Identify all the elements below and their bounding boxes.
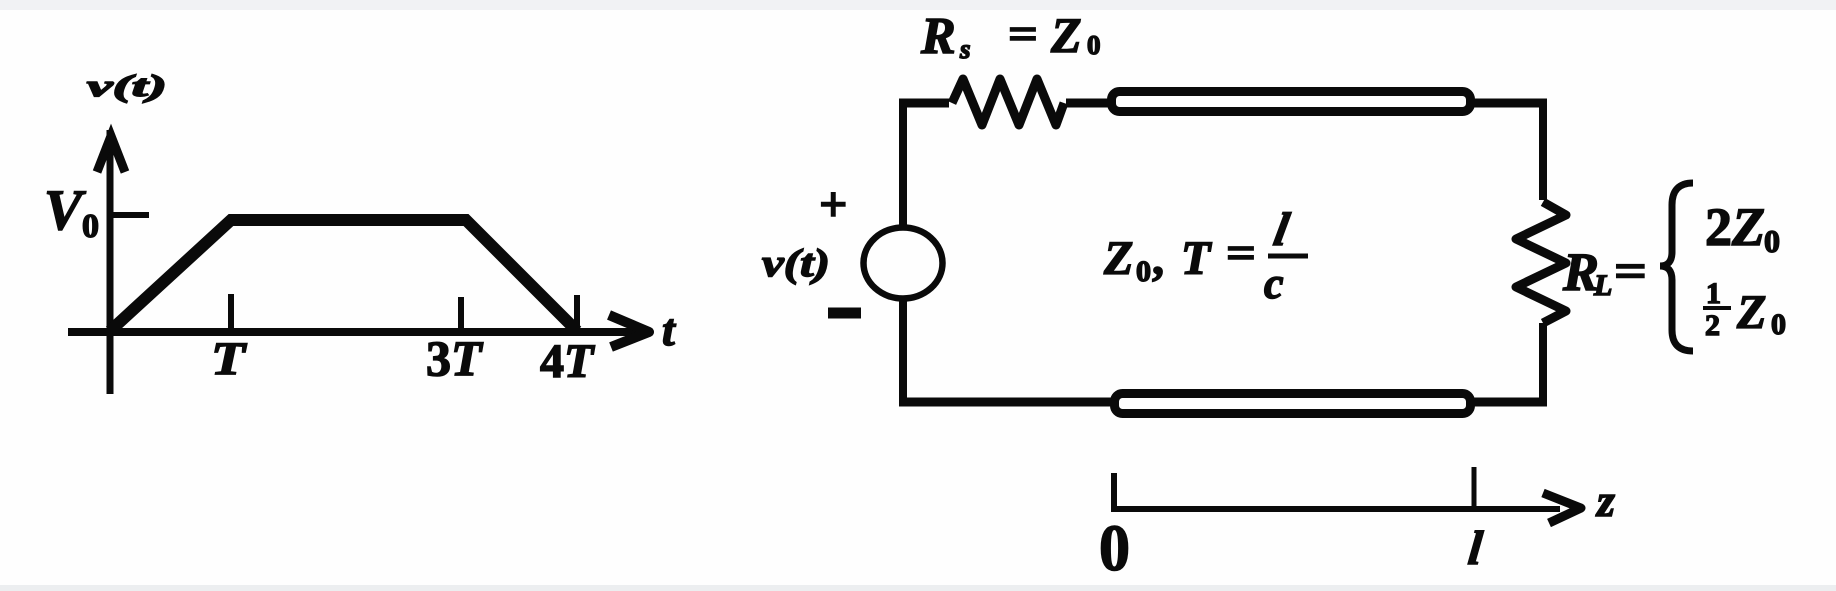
wire: right vertical upper: [1539, 99, 1547, 200]
x-axis arrowhead: [609, 315, 649, 347]
z-axis arrowhead: [1543, 493, 1581, 523]
V0 tick on y-axis: [110, 212, 149, 218]
svg-text:v(t): v(t): [87, 68, 167, 103]
svg-text:,: ,: [1152, 232, 1164, 285]
tick T: [228, 294, 234, 331]
svg-text:0: 0: [1136, 255, 1151, 288]
svg-text:0: 0: [82, 208, 99, 245]
svg-text:Z: Z: [1736, 286, 1766, 339]
svg-text:T: T: [1181, 232, 1212, 285]
svg-text:0: 0: [1099, 512, 1130, 585]
wire: right vertical lower: [1539, 323, 1547, 406]
svg-text:+: +: [819, 176, 848, 232]
source - polarity: [828, 308, 861, 319]
trapezoid pulse waveform: [110, 220, 577, 331]
svg-text:l: l: [1270, 204, 1294, 256]
svg-text:L: L: [1593, 269, 1612, 302]
y-axis: [107, 130, 114, 394]
wire: top left vertical from source to top rail: [899, 103, 907, 226]
svg-text:=: =: [1614, 245, 1647, 298]
scan band top: [0, 0, 1836, 10]
x-axis (t axis): [68, 328, 640, 336]
svg-text:0: 0: [1087, 30, 1101, 60]
svg-text:s: s: [959, 34, 971, 64]
svg-text:c: c: [1264, 259, 1284, 308]
z-axis left end tick: [1111, 473, 1117, 509]
svg-text:2: 2: [1705, 197, 1732, 257]
resistor RL zigzag: [1516, 202, 1566, 323]
z-axis line: [1111, 506, 1560, 512]
svg-text:z: z: [1595, 475, 1615, 526]
svg-text:R: R: [920, 8, 956, 65]
svg-text:=: =: [1226, 227, 1256, 278]
wire: bottom conductor to bottom right corner: [1472, 398, 1547, 407]
svg-text:V: V: [44, 179, 86, 242]
svg-text:Z: Z: [1050, 7, 1082, 63]
svg-text:t: t: [662, 304, 676, 355]
svg-text:2: 2: [1705, 309, 1720, 342]
tick 4T: [574, 295, 580, 331]
svg-text:0: 0: [1764, 223, 1780, 259]
source v(t) circle: [864, 228, 943, 299]
wire: top conductor to top right corner: [1472, 99, 1547, 108]
resistor Rs zigzag: [952, 79, 1064, 125]
svg-text:Z: Z: [1103, 232, 1133, 285]
svg-text:=: =: [1008, 8, 1038, 59]
svg-text:v(t): v(t): [762, 242, 830, 285]
transmission line bottom conductor tube: [1115, 394, 1471, 414]
wire: resistor to top conductor: [1066, 99, 1112, 108]
curly brace: [1660, 183, 1693, 351]
wire: top rail left segment: [899, 99, 949, 108]
scan band bottom: [0, 585, 1836, 591]
transmission line top conductor tube: [1112, 92, 1471, 112]
tick 3T: [458, 297, 464, 331]
wire: source bottom to bottom rail: [899, 300, 907, 402]
svg-text:0: 0: [1771, 308, 1786, 341]
y-axis arrowhead: [97, 136, 125, 172]
svg-text:l: l: [1466, 522, 1486, 575]
svg-text:1: 1: [1706, 277, 1721, 310]
wire: bottom rail left segment: [899, 398, 1112, 407]
svg-text:4T: 4T: [540, 335, 595, 388]
svg-text:3T: 3T: [426, 330, 484, 386]
svg-text:Z: Z: [1731, 197, 1765, 257]
svg-text:T: T: [211, 333, 248, 385]
z-axis tick at l: [1472, 467, 1477, 509]
